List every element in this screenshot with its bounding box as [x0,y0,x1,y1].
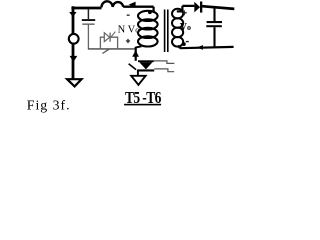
snubber lead upper [154,61,175,64]
inductor L top [101,1,123,7]
wire left vertical [72,6,75,79]
transformer secondary winding [172,9,183,47]
capacitor C aux top plate [82,19,95,21]
aux branch rail wire [88,48,135,50]
arrow up on primary down wire [132,50,139,57]
output capacitor bottom plate [206,25,222,27]
thyristor gate diagonal [129,64,136,70]
primary down wire [135,47,137,61]
svg-text:Vo: Vo [180,22,191,33]
aux switch left leg [100,37,104,49]
label plus primary [126,39,130,43]
capacitor C aux bottom plate [82,24,94,25]
label plus secondary [182,10,187,15]
wire corner into primary [153,7,155,13]
capacitor C aux top stub [87,9,89,19]
transformer core lines [165,10,168,53]
svg-text:Fig 3f.: Fig 3f. [27,98,71,113]
arrow left on bottom rail [196,45,203,50]
aux diode triangle [104,33,109,42]
thyristor T triangle [139,62,152,69]
secondary polarity dot [182,42,186,46]
snubber lead lower [154,69,174,72]
thyristor T bottom bar [137,69,154,71]
wire diode to right [202,6,234,9]
wire top to transformer [123,6,153,8]
capacitor C aux bottom lead [87,24,89,49]
bottom rail right [180,47,234,48]
arrow down below source [70,56,78,62]
ground stub [137,72,139,76]
secondary top lead [177,6,195,13]
secondary bottom lead [178,46,180,49]
current source circle [69,34,79,44]
ground arrow terminal left [67,79,81,86]
ground triangle [131,76,145,85]
output capacitor top stub [213,7,215,21]
aux switch right leg [110,37,118,49]
svg-text:N Vo: N Vo [118,25,140,36]
output capacitor bottom stub [213,27,215,47]
transformer primary winding [138,11,158,47]
label minus primary [127,15,130,16]
label minus secondary [186,41,189,42]
aux gate diagonal [110,32,115,39]
aux rail switch blade [102,49,109,53]
primary bottom lead [136,46,142,47]
wire top-left horizontal [71,7,101,10]
aux diode bar [109,33,111,42]
label T5 -T6 underline [124,104,161,106]
arrow down on left wire [69,12,76,17]
arrow left on top wire [129,2,136,8]
diode D triangle [194,2,200,13]
diode D bar [200,2,202,13]
primary polarity dot [148,10,152,14]
output capacitor top plate [207,21,222,23]
thyristor T top bar [138,60,154,62]
